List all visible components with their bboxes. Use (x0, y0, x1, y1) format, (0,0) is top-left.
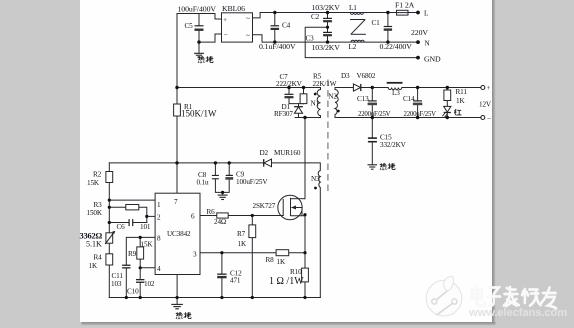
capacitor C2 plates (323, 18, 332, 23)
N3 phase dot (314, 187, 317, 190)
svg-text:103/2KV: 103/2KV (312, 43, 341, 52)
resistor R1 (174, 104, 181, 116)
ground (hot) below UC3842 (171, 304, 183, 308)
watermark logo circle (426, 276, 462, 316)
resistor R10 (302, 268, 309, 282)
svg-text:0.1u: 0.1u (197, 179, 210, 187)
svg-text:5.1K: 5.1K (86, 240, 102, 249)
svg-text:KBL06: KBL06 (222, 4, 245, 13)
terminal - (481, 116, 485, 120)
resistor R8 (horizontal) (276, 250, 289, 256)
svg-text:100uF/25V: 100uF/25V (236, 178, 268, 186)
wire: C2 leads and mid node (327, 13, 329, 18)
wire: C5 leads (198, 14, 200, 26)
capacitor C1 plates (384, 26, 392, 31)
wire: N3 bottom to rail (319, 188, 321, 298)
capacitor C3 plates (323, 32, 332, 37)
svg-text:1K: 1K (277, 258, 286, 266)
hot ground label (top, under C5) (198, 56, 213, 63)
capacitor C9 plates (225, 175, 233, 180)
svg-text:C14: C14 (403, 95, 415, 103)
wire: R3 right lead to pin2 (139, 207, 147, 222)
wire: source vertical (304, 215, 306, 268)
wire: pin2 (147, 215, 155, 217)
svg-text:R9: R9 (128, 250, 137, 258)
ground (hot) under C5 (194, 53, 204, 57)
transistor Q1 2SK727 MOSFET (278, 195, 305, 219)
wire: fuse to L terminal (408, 12, 416, 14)
svg-text:~: ~ (246, 15, 250, 23)
inductor L1 (350, 13, 363, 15)
wire: C9 top lead (228, 163, 230, 175)
wire: secondary bottom rail (335, 115, 481, 118)
bridge rectifier KBL06 box (222, 13, 253, 42)
svg-text:GND: GND (424, 55, 441, 64)
resistor R2 (106, 172, 113, 183)
svg-text:C10: C10 (127, 288, 139, 296)
wire: C4 leads (274, 13, 276, 26)
ground under C8 C9 (218, 195, 228, 199)
wire: R7 leads (251, 216, 253, 225)
svg-text:471: 471 (230, 277, 241, 285)
svg-text:RF307: RF307 (274, 110, 293, 118)
svg-text:R10: R10 (290, 268, 302, 276)
svg-text:~: ~ (246, 32, 250, 40)
wire: C13 leads (371, 88, 373, 101)
svg-text:F1 2A: F1 2A (395, 1, 415, 10)
node dots control section (108, 199, 307, 300)
svg-text:3: 3 (193, 251, 197, 259)
resistor R9 (137, 247, 144, 259)
wire: pin6 gate wire (200, 215, 217, 217)
svg-text:0.22/400V: 0.22/400V (380, 42, 413, 51)
svg-text:4: 4 (157, 265, 161, 273)
wire: gnd symbol stub (176, 298, 178, 305)
diode D2 MUR160 (cathode left) (264, 159, 272, 167)
wire: D1 anode to drain node (298, 113, 300, 117)
capacitor C7 plates (285, 94, 294, 99)
ground (hot) under C15 (368, 165, 378, 169)
svg-text:0.1uF/400V: 0.1uF/400V (259, 42, 296, 51)
resistor R4 (106, 254, 113, 265)
N1 phase dot (314, 93, 317, 96)
svg-text:C6: C6 (117, 223, 126, 231)
wire: pin1 from divider (109, 199, 155, 201)
wire: R9 leads (139, 237, 141, 247)
svg-text:220V: 220V (411, 28, 428, 37)
node dots primary (175, 26, 329, 194)
svg-text:103: 103 (111, 280, 122, 288)
wire: pin4 (140, 267, 155, 269)
LED red (442, 106, 451, 117)
wire: pin3 (200, 252, 276, 254)
transformer winding N3 (318, 171, 320, 188)
inductor L2 (351, 40, 364, 42)
svg-text:D3: D3 (341, 72, 350, 80)
svg-text:L3: L3 (392, 89, 400, 97)
wire: R11 to LED (446, 101, 448, 107)
capacitor C11 plates (122, 265, 130, 269)
svg-text:−: − (487, 115, 491, 123)
wire: pin8 to C11 (126, 237, 155, 264)
capacitor C6 plates (horizontal) (129, 219, 134, 226)
transformer winding N1 (317, 90, 320, 116)
wire: R5 leads (303, 88, 305, 94)
MOSFET arrow (291, 206, 296, 210)
wire: R3 left lead (109, 206, 126, 208)
choke core bars and diagonal (350, 20, 366, 35)
svg-text:+: + (487, 84, 491, 92)
labels primary/secondary (181, 72, 492, 187)
N2 phase dot (337, 110, 340, 113)
IC U1 UC3842 box (155, 193, 200, 274)
capacitor C10 plates (136, 279, 144, 283)
svg-text:R7: R7 (237, 230, 246, 238)
svg-text:101: 101 (140, 223, 151, 231)
labels top section (178, 1, 442, 64)
labels control section (80, 171, 305, 296)
pin number labels (157, 198, 197, 273)
terminal + (481, 86, 485, 90)
svg-text:1K: 1K (456, 97, 465, 105)
potentiometer 3362 (105, 231, 115, 244)
svg-text:6: 6 (191, 213, 195, 221)
svg-text:www.elecfans.com: www.elecfans.com (468, 307, 567, 319)
capacitor C5 plates (195, 25, 204, 31)
schematic white page (80, 0, 492, 322)
svg-text:+: + (223, 16, 227, 24)
wire: VCC rail (109, 162, 263, 164)
watermark text: dianzi fashaoyou (472, 287, 557, 310)
wire: left divider vertical (108, 163, 110, 172)
svg-text:L: L (424, 10, 428, 18)
svg-text:1 Ω /1W: 1 Ω /1W (269, 276, 304, 287)
svg-text:R6: R6 (207, 208, 216, 216)
wire: bridge ~ top to AC top rail (253, 13, 397, 18)
svg-text:L2: L2 (349, 43, 357, 51)
svg-text:8: 8 (157, 235, 161, 243)
wire: C7 bottom to RC join (289, 98, 304, 104)
capacitor C15 plates (368, 137, 377, 142)
capacitor C4 plates (271, 25, 280, 30)
wire: secondary top rail (335, 88, 353, 90)
svg-text:R4: R4 (94, 254, 103, 262)
svg-text:2200uF/25V: 2200uF/25V (358, 111, 391, 118)
wire: drain node horizontal (295, 116, 320, 118)
inductor L3 with core bar (387, 82, 403, 90)
terminal N (416, 40, 420, 44)
resistor R5 (300, 94, 307, 104)
svg-text:UC3842: UC3842 (167, 230, 191, 238)
svg-text:−: − (224, 31, 228, 39)
wire: HV vertical line from top to pin7 (176, 14, 178, 105)
resistor R6 (horizontal) (217, 213, 228, 218)
svg-text:15K: 15K (87, 179, 100, 187)
wire: bottom ground rail (109, 297, 320, 299)
svg-text:150K: 150K (87, 209, 103, 217)
wire: bridge minus to C5 bottom (199, 34, 222, 42)
resistor R11 (444, 90, 451, 101)
svg-text:2: 2 (157, 214, 161, 222)
svg-text:N1: N1 (311, 100, 320, 108)
diode D1 RF307 (zener, cathode up) (294, 107, 303, 114)
fuse F1 (397, 10, 409, 15)
page shadow right (492, 0, 495, 325)
wire: C10 leads (139, 268, 141, 279)
wire: bridge + output top rail (177, 14, 222, 20)
wire: C12 leads (221, 253, 223, 274)
hot ground label (bottom, under UC3842) (176, 312, 191, 319)
svg-text:7: 7 (174, 198, 178, 206)
svg-text:C1: C1 (372, 19, 381, 27)
wire: R11 top lead (446, 88, 448, 91)
svg-text:1: 1 (157, 201, 161, 209)
svg-text:D2: D2 (260, 149, 269, 157)
terminal GND (416, 56, 420, 60)
resistor R7 (249, 225, 256, 238)
capacitor C8 plates (212, 175, 219, 179)
svg-text:C5: C5 (185, 22, 194, 30)
svg-text:24Ω: 24Ω (214, 218, 226, 226)
wire: UC3842 gnd pin (176, 275, 178, 298)
svg-text:L1: L1 (349, 4, 357, 12)
transformer core dashed line (327, 80, 329, 194)
wire: C14 leads (417, 88, 419, 101)
svg-text:103/2KV: 103/2KV (312, 3, 341, 12)
capacitor C12 plates (217, 274, 226, 279)
svg-text:C3: C3 (306, 35, 315, 43)
node dots secondary (371, 86, 449, 119)
svg-text:C11: C11 (112, 272, 124, 280)
svg-text:N2: N2 (328, 93, 337, 101)
svg-text:V6802: V6802 (357, 72, 376, 80)
svg-text:C2: C2 (311, 13, 320, 21)
svg-text:2SK727: 2SK727 (253, 202, 276, 210)
svg-text:102: 102 (144, 280, 155, 288)
diode D3 V6802 (353, 84, 360, 91)
svg-text:R2: R2 (93, 171, 102, 179)
svg-text:332/2KV: 332/2KV (380, 141, 407, 149)
wire: mid node branch to GND rail (305, 27, 416, 57)
svg-text:N3: N3 (311, 175, 320, 183)
svg-text:MUR160: MUR160 (274, 149, 301, 157)
svg-text:R11: R11 (456, 88, 468, 96)
wire: C7 top lead (288, 88, 290, 94)
wire: D1 cathode stub (298, 104, 300, 107)
wire: drain vertical to MOSFET (304, 118, 306, 199)
svg-text:150K/1W: 150K/1W (181, 109, 217, 119)
svg-text:C4: C4 (282, 22, 291, 30)
wire: C1 leads (387, 13, 389, 26)
resistor R3 (horizontal) (126, 205, 139, 210)
wire: C8C9 ground stub (222, 192, 224, 194)
svg-text:2200uF/25V: 2200uF/25V (404, 111, 437, 118)
svg-text:22K/1W: 22K/1W (313, 80, 337, 88)
svg-text:15K: 15K (141, 241, 154, 249)
wire: bridge ~ bottom to AC bottom rail (253, 35, 417, 42)
LED red character label (454, 109, 461, 115)
page shadow bottom (82, 322, 496, 325)
wire: C6 branch (109, 222, 128, 224)
transformer winding N2 (335, 90, 338, 115)
terminal L (416, 11, 420, 15)
wire: C15 leads (371, 118, 373, 138)
svg-text:100uF/400V: 100uF/400V (178, 5, 217, 14)
node dots top section (197, 11, 420, 60)
svg-text:C13: C13 (357, 95, 369, 103)
svg-text:R8: R8 (266, 256, 275, 264)
wire: LED to bottom rail (446, 113, 448, 118)
hot ground label (secondary, at C15) (380, 163, 395, 170)
wire: C5 ground stub (198, 42, 200, 53)
wire: HV rail to transformer (177, 88, 321, 90)
svg-text:1K: 1K (238, 240, 247, 248)
svg-text:12V: 12V (479, 101, 492, 109)
capacitor C14 plates (413, 100, 422, 105)
wire: C11 bottom (125, 268, 127, 297)
svg-text:1K: 1K (89, 262, 98, 270)
svg-text:222/2KV: 222/2KV (276, 80, 303, 88)
wire: C8 leads (214, 163, 216, 175)
svg-text:R3: R3 (94, 201, 103, 209)
capacitor C13 plates (368, 100, 377, 105)
